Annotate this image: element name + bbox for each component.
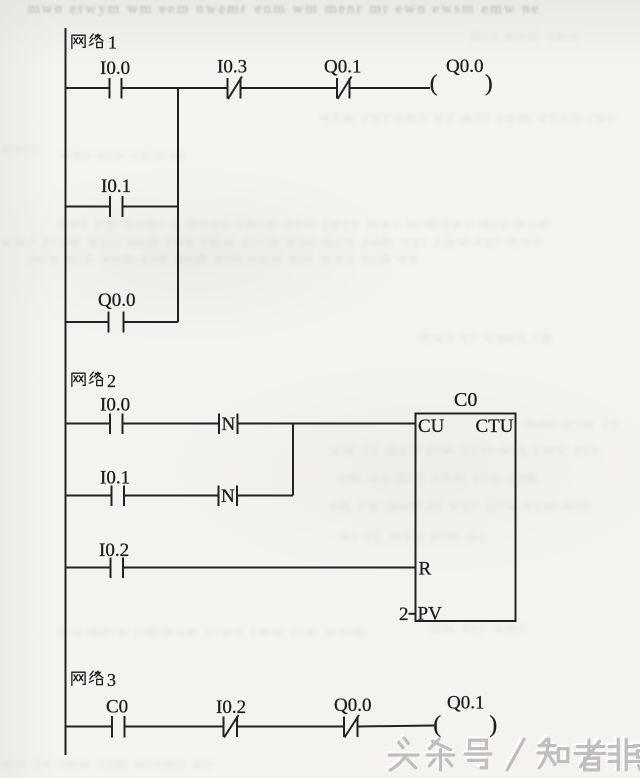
net2 junction vertical wire [292,424,294,496]
NC contact I0.2 (net3) [224,715,239,738]
NC contact Q0.1 [337,77,352,100]
PV constant wire [409,613,416,615]
contact C0 [112,716,125,738]
contact I0.1 [110,196,123,217]
left power rail [65,28,67,755]
watermark text gray layer [389,738,640,770]
label network3 heading [72,671,103,685]
contact I0.1 (net2) [112,486,125,507]
NC contact Q0.0 (net3) [344,715,359,738]
network 1 branch vertical wire [177,88,179,322]
contact Q0.0 [109,312,124,333]
contact I0.2 [111,558,124,579]
contact I0.0 (net2) [110,414,123,435]
NC contact I0.3 [228,77,243,100]
label network2 heading [72,372,103,386]
faint bleed-through strips (scan show-through, decorative) [0,0,640,1]
network 1 rung 3 wire [66,321,179,323]
network 2 rung 1 wire [66,423,416,425]
network 1 rung 2 wire [66,206,179,208]
N transition contact bars (net2 rung2) [219,486,238,507]
label network1 heading [72,34,103,48]
network 3 rung wire [66,726,435,727]
N transition contact bars (net2 rung1) [219,414,238,435]
watermark text emboss: white underlay [387,736,640,768]
network 2 rung 2 wire [66,495,294,497]
network 1 rung 1 wire [66,87,431,89]
network 2 rung 3 wire [66,567,416,569]
counter box C0 CTU [416,414,516,622]
contact I0.0 [110,78,122,99]
